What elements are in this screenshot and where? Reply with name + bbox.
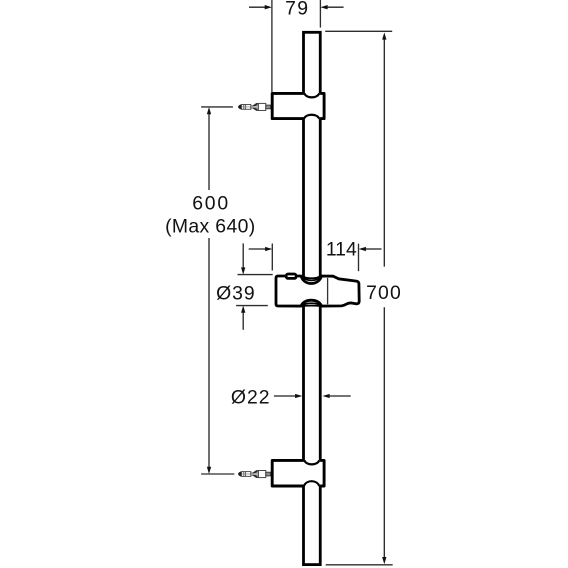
slider body with handset holder xyxy=(276,276,359,306)
bracket (top wall bracket) xyxy=(272,93,324,118)
wire: extension line right of dim 114 xyxy=(358,244,360,272)
slider lock tab xyxy=(286,274,296,278)
screw anchor (top bracket) xyxy=(238,103,270,111)
wire: extension line top of dim 39 xyxy=(238,274,273,276)
wire: extension line top of dim 700 xyxy=(325,30,392,32)
wire: extension line left of dim 114 xyxy=(271,244,273,271)
svg-text:(Max 640): (Max 640) xyxy=(165,215,255,237)
screw anchor (bottom bracket) xyxy=(238,470,270,478)
svg-text:700: 700 xyxy=(366,282,402,304)
bracket (bottom wall bracket) xyxy=(272,460,324,486)
dimension 39 arrows xyxy=(241,243,245,329)
wire: extension line bottom of dim 39 xyxy=(236,305,268,307)
svg-text:Ø39: Ø39 xyxy=(216,282,256,304)
wire: extension line bottom of dim 600 (screw axis) xyxy=(201,473,234,475)
svg-text:79: 79 xyxy=(285,0,309,20)
slider bottom ring arcs xyxy=(303,305,320,307)
rail tube xyxy=(304,32,321,564)
dimension 600 line with arrows xyxy=(207,107,211,474)
dimension 22 arrows xyxy=(274,394,351,398)
dimension 114 arrows xyxy=(249,247,382,251)
wire: extension line bottom of dim 700 xyxy=(326,564,393,566)
svg-text:600: 600 xyxy=(192,192,230,214)
rail neck arc in top bracket (upper) xyxy=(304,93,319,97)
holder joint line xyxy=(327,278,329,304)
rail neck arc in top bracket (lower) xyxy=(304,115,319,119)
wire: extension line top of dim 600 (screw axis) xyxy=(201,106,233,108)
wire: wall-plane extension line (top, dim 79 left) xyxy=(271,0,273,92)
svg-text:Ø22: Ø22 xyxy=(231,387,271,409)
svg-text:114: 114 xyxy=(326,239,357,261)
wire: extension line right of dim 79 xyxy=(319,0,321,28)
rail neck arc in bottom bracket (lower) xyxy=(304,481,319,486)
rail neck arc in bottom bracket (upper) xyxy=(304,460,319,464)
dimension 79 arrows xyxy=(249,5,344,9)
slider top ring arcs xyxy=(303,276,320,278)
dimension 700 line with arrows xyxy=(382,32,386,564)
